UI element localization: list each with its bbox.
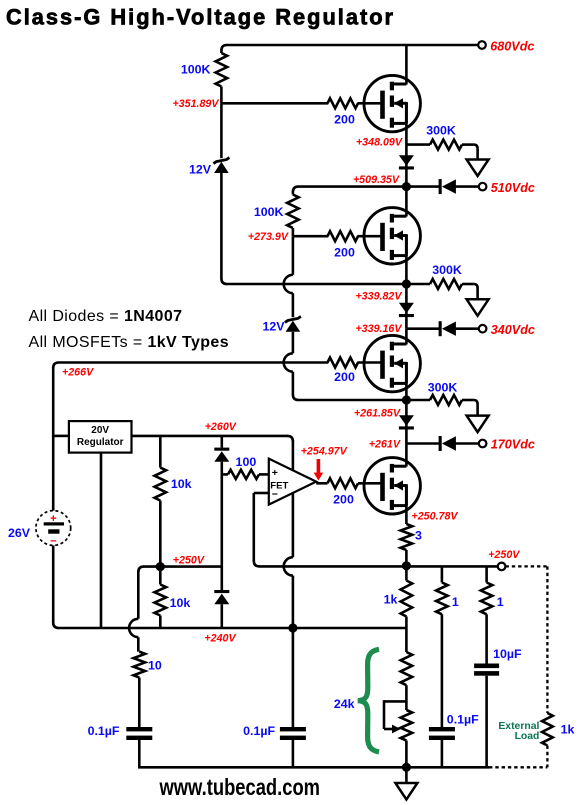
resistor R16 24k upper (401, 652, 413, 685)
svg-text:+509.35V: +509.35V (353, 174, 400, 186)
wire drain Q1 (405, 45, 408, 85)
svg-text:0.1µF: 0.1µF (243, 724, 275, 738)
resistor R15 1k (401, 581, 413, 617)
resistor R6 300K (430, 279, 462, 289)
wire zener column to corner (292, 372, 295, 395)
wire gate Q1 line (221, 102, 380, 105)
diode D8 (to 170Vdc) (439, 436, 442, 451)
ground (cell 3) (467, 416, 489, 433)
svg-text:+250V: +250V (488, 549, 520, 561)
wire +266V line (58, 361, 380, 364)
wire left rail down from +266V (52, 367, 55, 511)
wire zener column upper (node to hop) (292, 236, 295, 275)
wire ground stem bottom (405, 767, 408, 783)
svg-text:+240V: +240V (204, 632, 236, 644)
svg-text:100: 100 (236, 455, 257, 469)
svg-text:Load: Load (515, 731, 540, 742)
wire zener D1 bottom to corner (220, 173, 223, 279)
battery B1 26V dashed circle (36, 511, 71, 546)
wire dashed load right side (546, 566, 548, 713)
node +240V junction (288, 623, 297, 632)
svg-text:510Vdc: 510Vdc (491, 181, 535, 195)
wire pot to bottom rail (405, 741, 408, 769)
wire 10-ohm column upper (137, 572, 140, 619)
wire source Q2 to node (405, 236, 408, 329)
wire 10-ohm to cap1 (138, 678, 141, 728)
mosfet Q3 body (364, 335, 420, 391)
svg-text:170Vdc: 170Vdc (491, 438, 535, 452)
wire stub into regulator (53, 435, 69, 438)
svg-text:200: 200 (334, 245, 355, 259)
wire 10-ohm column to resistor (137, 637, 140, 651)
wire drain Q2 (405, 187, 408, 217)
resistor R5 200 (gate Q2) (328, 229, 357, 244)
svg-text:200: 200 (333, 493, 354, 507)
op-amp U1 triangle (269, 459, 316, 505)
wire 300K R8 line (406, 399, 430, 402)
wire 100K R1 top stub (220, 50, 223, 53)
node +339.82V junction (402, 279, 411, 288)
wire 1-ohm middle column (441, 566, 444, 582)
svg-text:+: + (272, 467, 278, 479)
svg-text:10k: 10k (170, 596, 191, 610)
node bottom rail junction (402, 763, 411, 772)
svg-text:+266V: +266V (62, 367, 94, 379)
diode D5 (Q2 source down) (399, 303, 414, 314)
svg-text:−: − (50, 536, 56, 548)
wire 510V line right (406, 185, 440, 188)
svg-text:+348.09V: +348.09V (356, 137, 403, 149)
pot wiper arrow (392, 725, 401, 734)
wire feed column lower (292, 576, 295, 628)
terminal 680Vdc (478, 41, 486, 49)
wire 1k column (405, 566, 408, 580)
hop over +266V line (284, 353, 293, 371)
hop over +240V line (129, 619, 138, 637)
wire 10k column top stub (159, 436, 162, 468)
ground (cell 1) (467, 160, 489, 177)
resistor R4 100K (287, 195, 299, 229)
node +250V out junction (402, 561, 411, 570)
svg-text:26V: 26V (8, 526, 31, 540)
terminal 510Vdc (479, 183, 487, 191)
wire source Q3 to node (405, 364, 408, 444)
diode D2 (Q1 source down) (399, 155, 414, 166)
svg-text:100K: 100K (181, 63, 211, 77)
resistor R11 10k lower (155, 585, 167, 616)
terminal 340Vdc (479, 325, 487, 333)
capacitor C1 0.1uF plates (126, 727, 152, 731)
svg-text:−: − (272, 489, 278, 501)
svg-text:200: 200 (334, 112, 355, 126)
wire source Q1 to node (405, 103, 408, 186)
wire 10k R9 to +250V node (159, 501, 162, 567)
wire feed column to cap2 (292, 628, 295, 728)
wire cap2 to bottom rail (292, 740, 295, 767)
svg-text:1k: 1k (384, 593, 398, 607)
svg-text:10k: 10k (171, 477, 192, 491)
wire 300K R3 line (406, 143, 430, 146)
wire regulator bottom (100, 453, 103, 628)
battery minus plate (48, 529, 59, 533)
svg-text:1: 1 (497, 595, 504, 609)
wire cap1 to bottom rail (138, 740, 141, 769)
terminal 170Vdc (479, 440, 487, 448)
svg-text:0.1µF: 0.1µF (447, 713, 479, 727)
wire gate Q2 line (293, 235, 381, 238)
wire 300K R6 to ground (462, 283, 474, 286)
mosfet Q2 body (364, 208, 420, 264)
wire 340V line (406, 327, 440, 330)
svg-text:10µF: 10µF (493, 647, 522, 661)
diode D7 (Q3 source down) (399, 415, 414, 426)
wire zener D4 below to hop (292, 332, 295, 354)
svg-text:300K: 300K (426, 124, 456, 138)
wire +250V output line (406, 565, 498, 568)
wire source Q4 down (405, 486, 408, 525)
svg-text:+273.9V: +273.9V (248, 231, 289, 243)
wire 100K R1 bottom stub (220, 87, 223, 104)
wire gate Q4 (358, 482, 381, 485)
resistor R13 200 (gate Q4) (328, 478, 359, 488)
wire dashed from +250V terminal (506, 565, 548, 567)
zener D1 12V (214, 162, 229, 173)
svg-text:+250.78V: +250.78V (412, 511, 459, 523)
svg-text:+261.85V: +261.85V (354, 408, 401, 420)
resistor R2 200 (gate Q1) (328, 96, 357, 111)
node +261.85V junction (402, 395, 411, 404)
svg-text:+261V: +261V (369, 439, 401, 451)
wire 100K R4 bottom stub (292, 228, 295, 236)
diode D9 (up, from 100) (214, 448, 229, 451)
svg-text:www.tubecad.com: www.tubecad.com (159, 774, 320, 800)
wire op-amp output (316, 482, 327, 485)
resistor R3 300K (430, 140, 462, 150)
svg-text:300K: 300K (432, 263, 462, 277)
wire drain Q3 (405, 329, 408, 345)
resistor R1 100K (216, 53, 228, 87)
wire +240V line (53, 623, 59, 629)
ground (output) (395, 783, 417, 800)
svg-text:1: 1 (452, 595, 459, 609)
resistor R10 10 (134, 652, 146, 678)
resistor R8 300K (430, 395, 462, 405)
capacitor C4 10uF plates (474, 664, 499, 669)
svg-text:12V: 12V (189, 163, 212, 177)
resistor R12 100 (228, 470, 259, 479)
svg-text:+: + (50, 513, 56, 525)
svg-text:1k: 1k (561, 722, 575, 736)
wire cap4 to bottom rail (485, 676, 488, 769)
wire cap3 to bottom rail (441, 740, 444, 769)
wire +250V stub (138, 567, 144, 573)
svg-text:+339.16V: +339.16V (355, 323, 402, 335)
wire dashed load bottom (489, 766, 547, 768)
svg-text:0.1µF: 0.1µF (88, 724, 120, 738)
svg-text:10: 10 (148, 659, 162, 673)
diode D6 (to 340Vdc) (439, 321, 442, 336)
node +250V left junction (156, 562, 165, 571)
wire op-amp inverting input loop (254, 492, 269, 495)
svg-text:All MOSFETs = 1kV Types: All MOSFETs = 1kV Types (29, 334, 230, 351)
wire diode string bottom (221, 604, 224, 628)
battery plus plate (44, 522, 64, 525)
svg-text:12V: 12V (262, 320, 285, 334)
brace 24k (358, 649, 379, 752)
resistor R19 1 (right) (481, 583, 493, 615)
svg-text:200: 200 (334, 370, 355, 384)
diode D3 (to 510Vdc) (439, 179, 442, 194)
svg-text:All Diodes = 1N4007: All Diodes = 1N4007 (29, 308, 183, 325)
svg-text:+250V: +250V (173, 554, 205, 566)
wire 300K R6 line (406, 283, 430, 286)
wire 100 to op-amp (259, 473, 269, 476)
resistor R18 1 (middle) (436, 583, 448, 615)
wire zener column to zener (292, 293, 295, 317)
svg-text:340Vdc: 340Vdc (491, 323, 535, 337)
wire 170V line (406, 442, 440, 445)
mosfet Q4 body (364, 458, 420, 514)
terminal +250V (498, 563, 506, 571)
wire R14 to +250V node (405, 550, 408, 566)
wire 1k to 24k (405, 617, 408, 653)
resistor R14 3 (401, 524, 413, 550)
wire 24k mid (405, 685, 408, 710)
wire 10k R11 stubs (159, 567, 162, 585)
resistor R17 24k pot (401, 710, 413, 741)
svg-text:Regulator: Regulator (77, 437, 124, 448)
capacitor C3 0.1uF plates (429, 727, 455, 731)
hop over +250V line (284, 557, 293, 575)
wire diode string mid (221, 462, 224, 590)
wire 300K R8 to ground (462, 399, 474, 402)
wire 26V source bottom (52, 545, 55, 623)
wire 100 resistor line (222, 473, 228, 476)
regulator U2 box (69, 421, 132, 453)
svg-text:Class-G High-Voltage Regulator: Class-G High-Voltage Regulator (6, 5, 395, 30)
node +509.35V junction (402, 182, 411, 191)
wire pot wiper loop (384, 700, 406, 703)
hop over +339.82V line (284, 275, 293, 293)
wire feed column upper (+260V corner down) (292, 440, 295, 557)
wire zener D1 top stub (220, 103, 223, 158)
svg-text:+351.89V: +351.89V (172, 98, 219, 110)
wire 510V line left (298, 185, 407, 188)
svg-text:3: 3 (415, 528, 422, 542)
capacitor C2 0.1uF plates (280, 727, 306, 731)
svg-text:680Vdc: 680Vdc (490, 40, 534, 54)
svg-text:300K: 300K (428, 381, 458, 395)
resistor R20 1k external load (542, 713, 553, 746)
wire diode string top stub (221, 436, 224, 448)
mosfet Q1 body (364, 75, 420, 131)
wire 100K R4 top stub (292, 192, 295, 195)
red arrow +254.97V (317, 459, 321, 474)
svg-text:20V: 20V (91, 425, 109, 436)
resistor R9 10k (155, 468, 167, 501)
svg-text:+339.82V: +339.82V (355, 291, 402, 303)
zener D4 12V (286, 321, 301, 332)
wire 300K R3 to ground (462, 143, 474, 146)
svg-text:+254.97V: +254.97V (301, 445, 348, 457)
resistor R7 200 (gate Q3) (328, 355, 357, 370)
diode D10 (up, to +250V) (214, 590, 229, 593)
svg-text:100K: 100K (254, 205, 284, 219)
ground (cell 2) (467, 299, 489, 316)
wire +260V line (132, 435, 288, 438)
wire top 680V rail (226, 44, 478, 47)
wire 1-ohm right column (485, 566, 488, 582)
wire drain Q4 (405, 444, 408, 467)
svg-text:+260V: +260V (205, 421, 237, 433)
svg-text:24k: 24k (334, 697, 355, 711)
